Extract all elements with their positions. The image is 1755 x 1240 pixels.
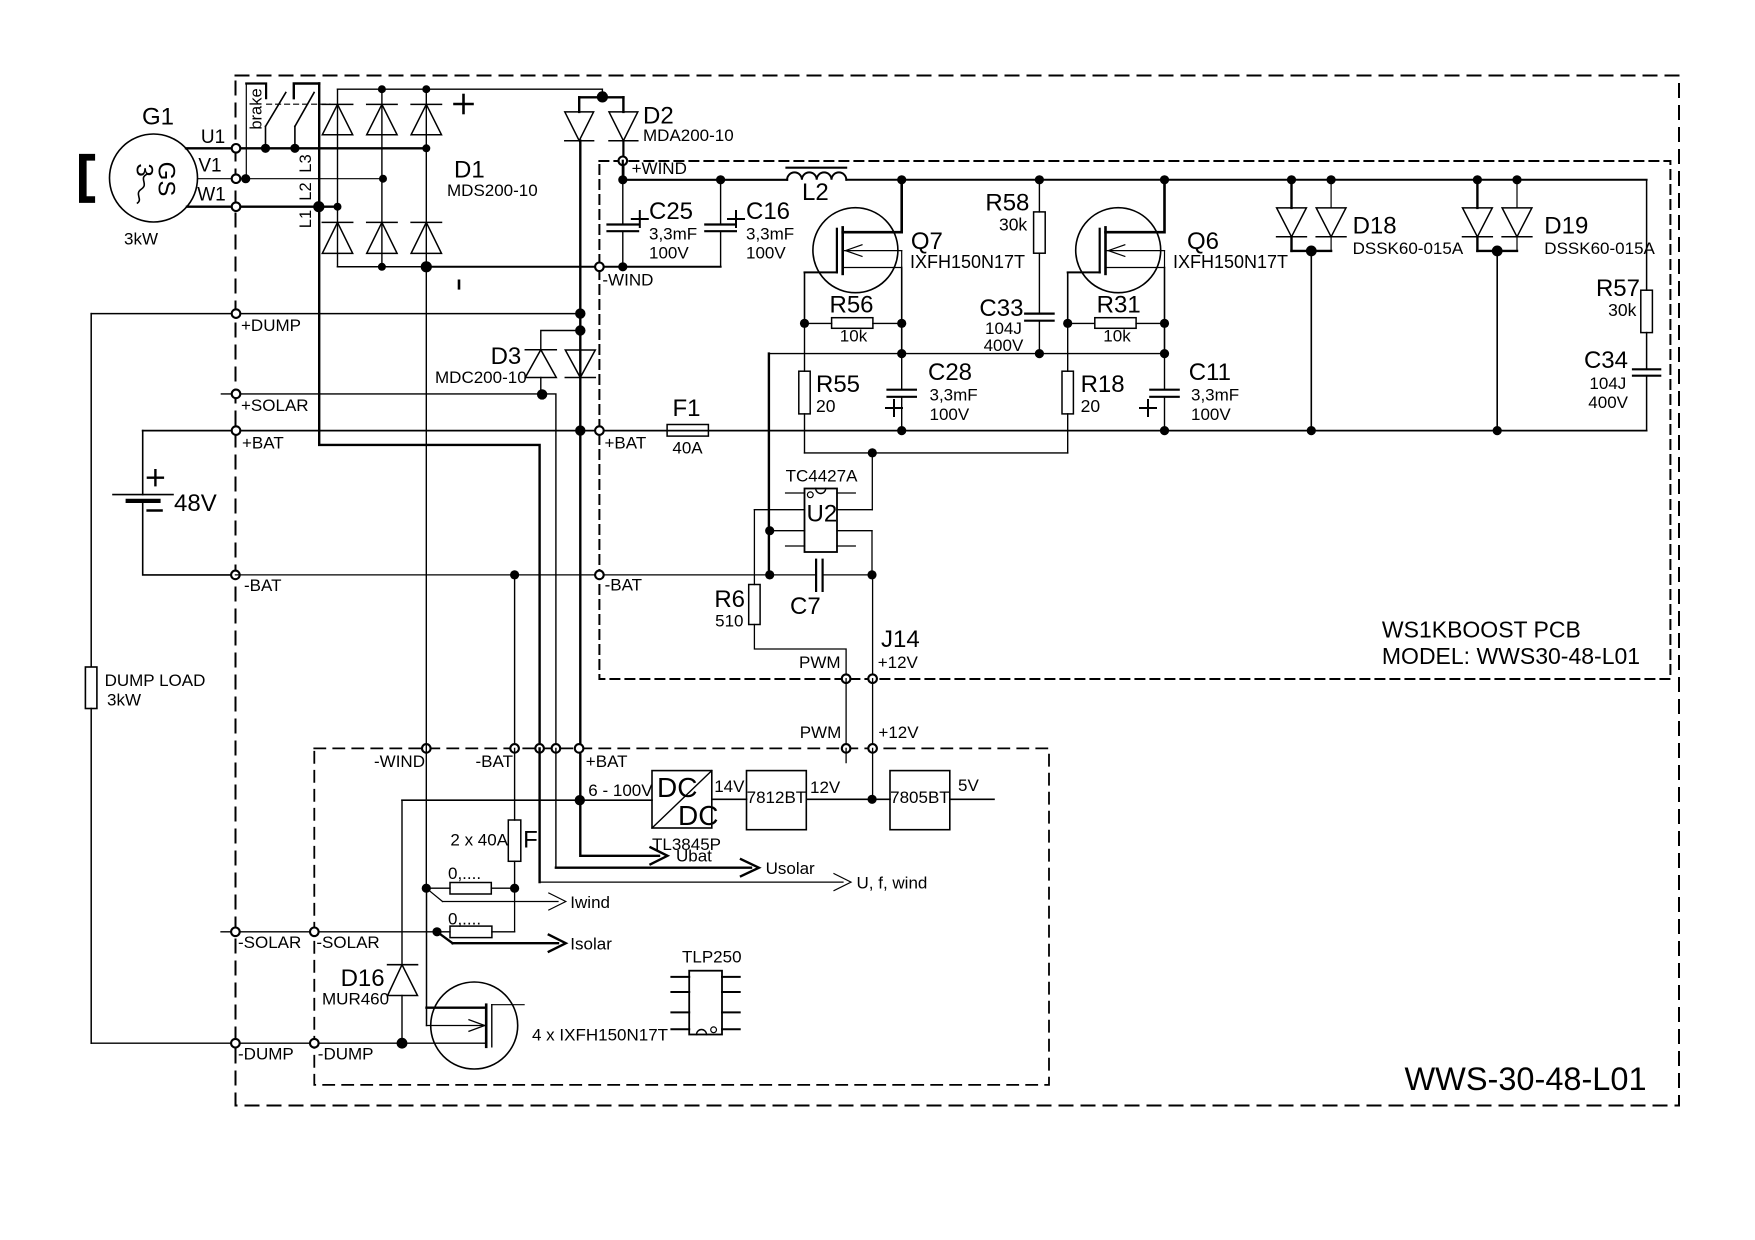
wire U f wind sense <box>538 748 540 882</box>
node C11 +BAT <box>1160 426 1169 435</box>
wire battery positive leg <box>142 431 144 495</box>
node R58 top <box>1035 175 1044 184</box>
svg-text:C25: C25 <box>649 198 693 225</box>
terminal U1 <box>232 144 241 153</box>
svg-text:PWM: PWM <box>799 653 841 672</box>
svg-text:Iwind: Iwind <box>570 893 610 912</box>
wire R18 to PWM rail <box>1067 414 1069 453</box>
wire battery negative leg <box>143 501 236 575</box>
svg-text:3kW: 3kW <box>107 691 141 710</box>
svg-text:14V: 14V <box>714 777 745 796</box>
wire D3 left anode to +SOLAR <box>540 378 542 395</box>
generator G1 circle <box>110 134 198 222</box>
node source rail Q6 <box>1160 349 1169 358</box>
svg-text:40A: 40A <box>672 439 703 458</box>
node D18 +BAT <box>1307 426 1316 435</box>
svg-text:-WIND: -WIND <box>374 752 425 771</box>
svg-text:R55: R55 <box>816 371 860 398</box>
svg-text:R18: R18 <box>1081 371 1125 398</box>
svg-text:5V: 5V <box>958 776 979 795</box>
wire L1 from W1 down to lower PCB <box>319 84 539 749</box>
terminal -DUMP inner <box>310 1039 319 1048</box>
fuse F1 <box>667 425 708 437</box>
svg-text:100V: 100V <box>1191 405 1231 424</box>
wire D18 cathode to +BAT <box>1310 251 1312 431</box>
node R31 left <box>1063 319 1072 328</box>
WS1KBOOST PCB dashed box <box>599 161 1670 679</box>
node U2 ground pin <box>765 526 774 535</box>
pin TLP250 right <box>722 976 740 978</box>
terminal +SOLAR <box>232 390 241 399</box>
wire 6-100V rail <box>402 799 652 801</box>
wire +WIND terminal drop <box>622 161 624 180</box>
terminal +SOLAR lower <box>552 744 561 753</box>
svg-text:C7: C7 <box>790 593 821 620</box>
wire dump load left leg <box>90 314 92 667</box>
svg-text:V1: V1 <box>198 156 221 177</box>
svg-text:7812BT: 7812BT <box>747 788 807 807</box>
diode D19 right <box>1516 180 1518 208</box>
wire -WIND drop from D1 <box>425 267 427 888</box>
node gate driver ground -BAT <box>765 570 774 579</box>
node -WIND C25 <box>618 262 627 271</box>
outer dashed enclosure box <box>236 76 1680 1106</box>
wire -SOLAR rail <box>221 931 450 933</box>
pin U2 7 <box>837 509 872 511</box>
svg-text:+BAT: +BAT <box>586 752 628 771</box>
capacitor C28 <box>901 354 903 390</box>
diode D1 upper L1 <box>322 103 352 105</box>
node sense line 6-100V rail <box>575 795 585 805</box>
wire Isolar sense <box>437 932 453 943</box>
wire +DUMP rail <box>91 313 580 315</box>
wire PWM gap link <box>845 679 847 749</box>
svg-text:+BAT: +BAT <box>605 434 647 453</box>
svg-text:L2: L2 <box>297 182 315 200</box>
svg-text:TLP250: TLP250 <box>682 948 742 967</box>
node source rail Q7 <box>897 349 906 358</box>
svg-text:-WIND: -WIND <box>602 271 653 290</box>
svg-text:+DUMP: +DUMP <box>241 316 301 335</box>
wire U2 input from R6 <box>753 510 755 585</box>
terminal +12V lower <box>868 744 877 753</box>
svg-text:R6: R6 <box>714 586 745 613</box>
svg-text:D19: D19 <box>1544 213 1588 240</box>
svg-text:Usolar: Usolar <box>766 859 815 878</box>
svg-text:DUMP LOAD: DUMP LOAD <box>105 671 206 690</box>
wire PWM stub <box>845 748 847 762</box>
node D19 right top <box>1512 175 1521 184</box>
wire V1 phase <box>198 178 384 180</box>
wire Q7 gate to R56 <box>804 272 806 323</box>
wire Q6 source down <box>1164 268 1166 354</box>
resistor R55 <box>799 371 810 414</box>
wire R55 to PWM rail <box>804 414 806 453</box>
svg-text:-DUMP: -DUMP <box>238 1045 294 1064</box>
node sense line +BAT <box>575 425 585 435</box>
resistor DUMP LOAD <box>85 667 97 709</box>
terminal -BAT outer <box>231 571 240 580</box>
svg-text:+BAT: +BAT <box>242 434 284 453</box>
node C16 top <box>716 175 725 184</box>
brake switch S2 fixed contact <box>294 84 319 99</box>
svg-text:brake: brake <box>248 88 266 129</box>
terminal -BAT inner <box>595 571 604 580</box>
node D1 bus L2 top <box>378 85 386 93</box>
rectifier D1 column L2 <box>381 89 383 267</box>
node V1 to D1 column L2 <box>379 175 387 183</box>
svg-text:100V: 100V <box>930 405 970 424</box>
rectifier D1 column L1 <box>337 89 339 267</box>
wire +12V gap link <box>872 679 874 749</box>
diode D2 right <box>622 97 624 112</box>
node D2 plus junction <box>597 91 608 102</box>
svg-text:R58: R58 <box>985 190 1029 217</box>
wire gate driver ground drop <box>768 354 770 575</box>
terminal +BAT outer <box>232 426 241 435</box>
svg-text:10k: 10k <box>1103 327 1131 346</box>
pin U2 8 <box>837 492 855 494</box>
wire dump switch body <box>427 1025 487 1027</box>
svg-text:+WIND: +WIND <box>632 159 687 178</box>
capacitor C34 <box>1646 333 1648 370</box>
brake switch S1 fixed contact <box>245 84 247 179</box>
node +WIND rail <box>618 175 627 184</box>
svg-text:48V: 48V <box>174 490 217 517</box>
node U1 to D1 column L3 <box>422 144 430 152</box>
svg-text:+12V: +12V <box>878 723 919 742</box>
pin TLP250 right <box>722 1011 740 1013</box>
resistor R58 <box>1038 180 1040 212</box>
node -BAT to lower PCB <box>510 570 519 579</box>
svg-text:3,3mF: 3,3mF <box>746 225 794 244</box>
wire -BAT drop to lower PCB <box>514 575 516 749</box>
wire Q7 source down <box>901 268 903 354</box>
pin U2 2 <box>754 509 804 511</box>
svg-text:6 - 100V: 6 - 100V <box>588 781 653 800</box>
svg-text:30k: 30k <box>999 215 1027 235</box>
node gate rail to U2 <box>868 448 877 457</box>
converter DC/DC TL3845P <box>652 771 712 828</box>
wire Q6 gate to R31 <box>1067 272 1069 323</box>
pin TLP250 left <box>671 1011 689 1013</box>
svg-text:2 x 40A: 2 x 40A <box>450 831 508 850</box>
svg-text:-SOLAR: -SOLAR <box>238 933 301 952</box>
wire U2 supply riser <box>871 453 873 510</box>
terminal +DUMP <box>232 309 241 318</box>
svg-text:MODEL: WWS30-48-L01: MODEL: WWS30-48-L01 <box>1382 643 1640 669</box>
terminal PWM on PCB edge <box>842 674 851 683</box>
wire +BAT rail <box>143 430 1647 432</box>
node C28 +BAT <box>897 426 906 435</box>
wire D2 left down through D3 to +BAT and Ubat <box>579 141 581 801</box>
svg-text:TC4427A: TC4427A <box>786 467 858 486</box>
wire dump switch drain from -WIND <box>426 888 428 1025</box>
node shunt solar left <box>432 927 441 936</box>
node D18 right top <box>1327 175 1336 184</box>
mounting bracket symbol <box>79 154 95 203</box>
diode D1 lower L1 <box>322 221 352 223</box>
svg-text:MDA200-10: MDA200-10 <box>643 126 734 145</box>
svg-text:-DUMP: -DUMP <box>318 1045 374 1064</box>
diode D3 left <box>525 349 556 351</box>
svg-text:U, f, wind: U, f, wind <box>857 873 928 892</box>
wire Usolar sense <box>556 748 751 867</box>
wire C7 right to +12V node <box>823 574 872 576</box>
svg-text:0,....: 0,.... <box>448 864 481 883</box>
svg-text:C11: C11 <box>1189 359 1231 386</box>
node D19 cathode <box>1492 246 1503 257</box>
wire +SOLAR rail <box>221 394 556 749</box>
transistor Q6 <box>1076 208 1161 293</box>
wire U1 phase <box>186 147 426 149</box>
svg-text:R57: R57 <box>1596 275 1640 302</box>
node D18 cathode <box>1306 246 1317 257</box>
wire shunt solar to -BAT <box>514 888 516 932</box>
svg-text:L3: L3 <box>297 154 315 172</box>
capacitor C33 <box>1038 253 1040 313</box>
svg-text:+12V: +12V <box>878 653 919 672</box>
wire D3 cathode bracket <box>541 331 581 350</box>
svg-text:J14: J14 <box>881 626 920 653</box>
svg-text:3,3mF: 3,3mF <box>649 225 697 244</box>
svg-text:DC: DC <box>657 772 697 803</box>
node D1 bus L2 bottom <box>378 263 386 271</box>
svg-text:3,3mF: 3,3mF <box>1191 386 1239 405</box>
terminal +BAT inner <box>595 426 604 435</box>
diode D19 left <box>1476 180 1478 208</box>
capacitor C11 <box>1164 354 1166 390</box>
wire DC/DC to 7812BT <box>712 798 747 800</box>
wire 12V rail <box>806 798 890 800</box>
capacitor C7 <box>815 560 817 591</box>
resistor R57 <box>1641 290 1653 332</box>
transistor Q7 <box>813 208 898 293</box>
svg-text:DSSK60-015A: DSSK60-015A <box>1544 239 1655 258</box>
ic U2 TC4427A <box>805 489 838 553</box>
terminal -SOLAR outer <box>231 928 240 937</box>
svg-text:Q7: Q7 <box>911 228 943 255</box>
svg-text:L2: L2 <box>802 179 829 206</box>
svg-text:-BAT: -BAT <box>476 752 513 771</box>
wire dump switch gate stub <box>492 1004 524 1006</box>
wire +WIND rail left <box>623 179 787 181</box>
wire 5V output <box>950 798 994 800</box>
terminal PWM lower <box>842 744 851 753</box>
wire dump load to -DUMP rail <box>90 709 92 1044</box>
wire Q6 gate to R18 <box>1067 323 1069 371</box>
node brake S1 pole on U1 <box>261 144 270 153</box>
pin U2 4 <box>786 545 805 547</box>
wire +12V drop to J14 <box>872 575 874 679</box>
svg-text:R56: R56 <box>829 292 873 319</box>
pin U2 1 <box>786 492 805 494</box>
diode D2 left <box>578 97 580 112</box>
wire gate drive output rail <box>805 452 1068 454</box>
svg-text:D1: D1 <box>454 157 485 184</box>
pin TLP250 right <box>722 991 740 993</box>
svg-text:C16: C16 <box>746 198 790 225</box>
svg-text:+SOLAR: +SOLAR <box>241 396 309 415</box>
svg-text:D18: D18 <box>1353 213 1397 240</box>
wire Iwind sense <box>426 888 442 901</box>
node brake S1 contact on V1 <box>241 174 250 183</box>
svg-text:DSSK60-015A: DSSK60-015A <box>1353 239 1464 258</box>
pin TLP250 left <box>671 976 689 978</box>
pin TLP250 right <box>722 1028 740 1030</box>
svg-text:IXFH150N17T: IXFH150N17T <box>1173 252 1288 272</box>
svg-text:C28: C28 <box>928 359 972 386</box>
diode D1 upper L2 <box>367 103 397 105</box>
svg-text:20: 20 <box>816 396 836 416</box>
terminal V1 <box>232 174 241 183</box>
svg-text:G1: G1 <box>142 104 174 131</box>
pin TLP250 left <box>671 991 689 993</box>
node R56 right <box>897 319 906 328</box>
svg-text:IXFH150N17T: IXFH150N17T <box>910 252 1025 272</box>
node R31 right <box>1160 319 1169 328</box>
regulator 7812BT <box>747 771 807 830</box>
terminal +12V on PCB edge <box>868 674 877 683</box>
node D3 cathode junction <box>575 325 585 335</box>
wire D2 top bar <box>579 96 623 98</box>
brake switch S2 lever <box>295 93 314 127</box>
svg-text:20: 20 <box>1081 396 1101 416</box>
svg-text:U1: U1 <box>201 127 225 148</box>
node brake S2 pole on U1 <box>290 144 299 153</box>
svg-text:3,3mF: 3,3mF <box>930 386 978 405</box>
node shunt wind left <box>422 884 431 893</box>
node +DUMP to sense line <box>575 308 585 318</box>
node D18 left top <box>1287 175 1296 184</box>
diode D1 upper L3 <box>411 103 441 105</box>
terminal L1 lower <box>535 744 544 753</box>
wire -BAT rail <box>235 574 816 576</box>
brake switch S1 lever <box>266 93 286 127</box>
svg-text:100V: 100V <box>649 244 689 263</box>
svg-text:12V: 12V <box>810 778 841 797</box>
svg-text:MDS200-10: MDS200-10 <box>447 181 538 200</box>
svg-text:C33: C33 <box>979 295 1023 322</box>
svg-text:4 x IXFH150N17T: 4 x IXFH150N17T <box>532 1026 668 1045</box>
svg-text:D3: D3 <box>491 343 522 370</box>
node D1 bus L3 bottom <box>421 261 432 272</box>
svg-text:D16: D16 <box>341 965 385 992</box>
capacitor C16 <box>720 180 722 225</box>
wire W1 phase <box>187 205 338 207</box>
pin TLP250 left <box>671 1028 689 1030</box>
wire source rail <box>769 353 1165 355</box>
terminal -WIND <box>595 263 604 272</box>
svg-text:R31: R31 <box>1097 292 1141 319</box>
svg-text:-SOLAR: -SOLAR <box>316 933 379 952</box>
svg-text:104J: 104J <box>1589 374 1626 393</box>
pin U2 3 <box>770 530 805 532</box>
svg-text:C34: C34 <box>1584 347 1628 374</box>
brake mechanical link dashed <box>267 103 330 105</box>
wire D19 cathode join <box>1477 250 1517 252</box>
terminal -WIND lower <box>422 744 431 753</box>
svg-text:F: F <box>523 827 538 854</box>
wire +12V to 12V rail <box>872 748 874 799</box>
wire D1 plus bus <box>338 89 603 97</box>
svg-text:WS1KBOOST PCB: WS1KBOOST PCB <box>1382 616 1581 642</box>
label minus output of D1 <box>458 281 461 289</box>
svg-text:W1: W1 <box>197 185 226 206</box>
transistor dump switch 4x IXFH150N17T <box>431 982 518 1069</box>
wire Ubat arrow <box>580 800 659 856</box>
svg-text:WWS-30-48-L01: WWS-30-48-L01 <box>1405 1061 1647 1097</box>
svg-text:MDC200-10: MDC200-10 <box>435 368 527 387</box>
diode D3 right <box>565 350 595 378</box>
terminal W1 <box>232 202 241 211</box>
resistor R6 <box>749 585 760 625</box>
svg-text:400V: 400V <box>1588 393 1628 412</box>
svg-text:100V: 100V <box>746 244 786 263</box>
svg-text:-BAT: -BAT <box>244 576 281 595</box>
node Q7 drain on +WIND rail <box>897 175 906 184</box>
node shunt wind right <box>510 884 519 893</box>
regulator 7805BT <box>890 771 950 830</box>
svg-text:DC: DC <box>678 800 718 831</box>
wire +WIND rail right drop <box>1646 180 1648 290</box>
rectifier D1 column L3 <box>425 89 427 267</box>
fuse F 2x40A <box>514 748 516 820</box>
resistor R31 <box>1068 322 1095 324</box>
node D16 -DUMP <box>397 1038 408 1049</box>
node W1 to D1 column L1 <box>334 203 342 211</box>
terminal -BAT lower <box>510 744 519 753</box>
svg-text:510: 510 <box>715 612 743 631</box>
wire 6-100V to D16 <box>401 800 403 965</box>
svg-text:TL3845P: TL3845P <box>652 835 721 854</box>
svg-text:-BAT: -BAT <box>605 576 642 595</box>
svg-text:3kW: 3kW <box>124 230 158 249</box>
terminal +BAT lower <box>575 744 584 753</box>
svg-text:L1: L1 <box>297 210 315 228</box>
wire D2 right to +WIND terminal <box>622 141 624 180</box>
pin U2 6 <box>837 530 872 532</box>
wire Q7 gate to R55 <box>804 323 806 371</box>
wire D18 cathode join <box>1292 250 1332 252</box>
node D1 bus L3 top <box>422 85 430 93</box>
node Q6 drain on +WIND rail <box>1160 175 1169 184</box>
resistor R18 <box>1062 371 1073 414</box>
svg-text:3: 3 <box>131 163 158 176</box>
svg-text:PWM: PWM <box>800 723 842 742</box>
terminal -DUMP outer <box>231 1039 240 1048</box>
lower control PCB dashed box <box>314 748 1049 1085</box>
wire -DUMP rail <box>91 1042 486 1044</box>
wire D19 cathode to +BAT <box>1496 251 1498 431</box>
wire U2 pin6 to -BAT node <box>871 531 873 575</box>
node R56 left <box>800 319 809 328</box>
wire R6 to PWM terminal <box>754 625 846 679</box>
node 12V to J14 <box>868 795 877 804</box>
wire F to shunt <box>514 861 516 888</box>
svg-text:400V: 400V <box>984 336 1024 355</box>
svg-text:7805BT: 7805BT <box>890 788 950 807</box>
capacitor C25 <box>622 180 624 225</box>
battery BT1 48V <box>113 494 173 496</box>
wire D1 minus bus to -WIND <box>338 266 427 268</box>
svg-text:Q6: Q6 <box>1187 228 1219 255</box>
terminal -SOLAR inner <box>310 928 319 937</box>
diode D1 lower L2 <box>367 221 397 223</box>
label plus output of D1 <box>455 103 473 106</box>
svg-text:U2: U2 <box>807 501 838 528</box>
resistor R56 <box>805 322 832 324</box>
